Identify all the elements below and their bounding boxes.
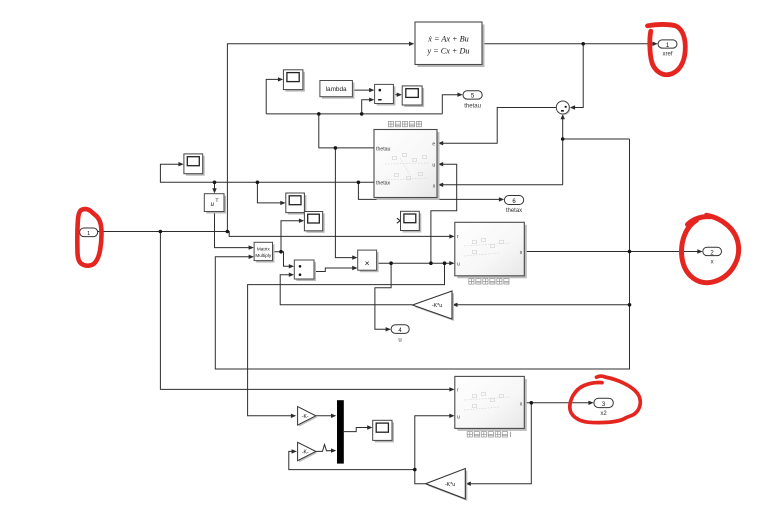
junction gain2 output net	[413, 468, 417, 472]
wire thetau drop to product input1	[335, 148, 352, 258]
outport 6 thetax	[504, 196, 523, 214]
svg-text:Matrix: Matrix	[257, 246, 270, 251]
junction thetau bus at divide	[360, 112, 364, 116]
wire sum output to e input	[443, 108, 556, 144]
outport 5 thetau	[463, 91, 482, 110]
mux	[337, 400, 344, 463]
junction x net at sum branch	[561, 137, 565, 141]
label plant model	[469, 279, 509, 284]
red annotation circle around xref	[648, 24, 686, 74]
junction thetau bus left	[317, 112, 321, 116]
svg-text:T: T	[216, 198, 219, 203]
subsystem adaptive network	[374, 121, 440, 200]
junction on reference wire (branch down)	[159, 230, 163, 234]
wire thetau to port5	[442, 95, 458, 114]
outport 1 xref	[658, 40, 677, 58]
wire u to adaptive u input	[431, 164, 457, 263]
svg-text:thetau: thetau	[376, 146, 391, 152]
outport 4 u	[391, 325, 409, 344]
svg-text:x2: x2	[600, 411, 607, 417]
svg-text:1: 1	[87, 231, 90, 237]
wire junction down to sum right input	[575, 44, 584, 108]
svg-text:Multiply: Multiply	[255, 253, 272, 258]
svg-text:u: u	[398, 338, 401, 344]
wire x net vertical and to MM input2	[215, 139, 629, 369]
junction thetax bus at scopeA	[256, 181, 260, 185]
junction x2 net	[530, 401, 534, 405]
junction on reference wire (branch up)	[226, 230, 230, 234]
constant lambda	[320, 81, 355, 99]
wire MM output to product2 input1	[281, 252, 290, 267]
wire junction to gainK2 input	[289, 451, 415, 469]
subsystem plant model 1	[455, 376, 527, 431]
junction x net at plant output	[628, 250, 632, 254]
wire plant x output to port2	[524, 251, 698, 253]
wire step down to plant r input	[227, 232, 450, 237]
svg-text:thetax: thetax	[376, 181, 391, 187]
svg-text:x: x	[711, 260, 714, 266]
junction thetax bus at port6	[357, 181, 361, 185]
svg-text:thetau: thetau	[464, 104, 481, 110]
svg-text:u: u	[432, 162, 435, 168]
junction u net at adaptive feed	[429, 261, 433, 265]
arrowheads	[178, 42, 702, 486]
junction on xref wire	[581, 42, 585, 46]
gain -K- lower	[298, 442, 318, 462]
wire port1 to junctions	[98, 231, 228, 233]
product block x	[358, 250, 379, 272]
svg-text:u: u	[457, 415, 460, 421]
inport 1	[80, 228, 98, 237]
wire thetau to scope1	[266, 79, 278, 114]
wire thetax bus	[160, 164, 374, 182]
product2 block (two dots)	[294, 260, 316, 281]
svg-text:ẋ = Ax + Bu: ẋ = Ax + Bu	[427, 35, 468, 44]
wire to adaptive x input	[443, 184, 563, 186]
red annotation circle around inport 1	[77, 209, 101, 266]
svg-text:-K*u: -K*u	[445, 482, 456, 488]
wire mux to scope4	[344, 428, 368, 432]
wire up to state-space input	[227, 44, 409, 232]
matrix multiply block	[254, 242, 274, 262]
svg-text:-K*u: -K*u	[432, 303, 443, 309]
wire u to port4	[375, 263, 391, 329]
svg-text:u: u	[457, 262, 460, 268]
svg-text:u: u	[211, 200, 215, 208]
junction u net at port4	[389, 261, 393, 265]
gain1 -K*u	[413, 291, 455, 321]
divide block	[375, 84, 396, 105]
scope2	[402, 86, 424, 107]
svg-text:-K-: -K-	[302, 450, 309, 456]
wire gain1 output to product2 input2	[280, 275, 412, 305]
wire product2 output to product input2	[314, 268, 353, 272]
scope4	[373, 420, 394, 442]
wire x2 to gain2	[471, 403, 531, 484]
wire x net to sum bottom junction	[563, 138, 630, 140]
svg-text:e: e	[432, 141, 435, 147]
wire thetax to port6	[358, 182, 499, 199]
wire state-space output to xref	[482, 43, 653, 45]
scopeB	[304, 212, 324, 233]
wire thetau bus	[266, 113, 442, 115]
subsystem plant model	[455, 222, 527, 278]
svg-text:-K-: -K-	[302, 414, 309, 420]
outport 3 x2	[594, 398, 613, 417]
svg-text:lambda: lambda	[326, 86, 347, 93]
scopeA	[286, 193, 307, 215]
svg-text:xref: xref	[662, 52, 672, 58]
junction thetau output branch	[334, 146, 338, 150]
sum block	[556, 101, 570, 115]
wire product output u net	[377, 262, 450, 264]
wire gain2 output to plant1 u input	[415, 416, 450, 484]
wire thetau to divide input2	[362, 100, 370, 114]
wire x to gain1 input	[458, 304, 630, 306]
gain -K- upper	[298, 407, 318, 427]
wire thetau output	[319, 114, 374, 148]
wire thetax into uT	[214, 182, 216, 189]
wire lambda to divide	[352, 89, 369, 91]
svg-text:×: ×	[365, 258, 370, 268]
wire gainK1 to mux	[316, 415, 332, 417]
wire uT output to MM input1	[215, 212, 250, 248]
wire sum bottom input	[562, 116, 564, 185]
wire divide to scope2	[393, 94, 397, 96]
junction matrix multiply output	[279, 250, 283, 254]
wire plant1 x output to port3	[524, 402, 589, 404]
scopeC unconnected	[397, 211, 421, 232]
label plant model 1	[467, 432, 510, 437]
svg-text:thetax: thetax	[506, 208, 522, 214]
wire thetax to scopeA	[257, 182, 281, 203]
wire u to gain -K- upper	[248, 263, 445, 416]
wire down to plant1 r input	[160, 232, 450, 390]
gain2 -K*u	[426, 469, 468, 501]
wire MM output to scopeB	[273, 221, 300, 252]
svg-text:y = Cx + Du: y = Cx + Du	[427, 47, 470, 56]
red annotation circle around port3 x2	[570, 376, 640, 423]
scope1	[283, 70, 305, 92]
red annotation circle around port2 x	[682, 215, 739, 282]
state-space block	[415, 22, 485, 67]
junction thetax bus at uT	[213, 181, 217, 185]
wire gainK2 to mux with notch	[316, 445, 332, 452]
junction u net at feedback	[443, 261, 447, 265]
scope3	[184, 154, 205, 176]
junction x net at gain1 branch	[628, 303, 632, 307]
outport 2 x	[703, 247, 722, 265]
math uT block	[204, 194, 226, 214]
